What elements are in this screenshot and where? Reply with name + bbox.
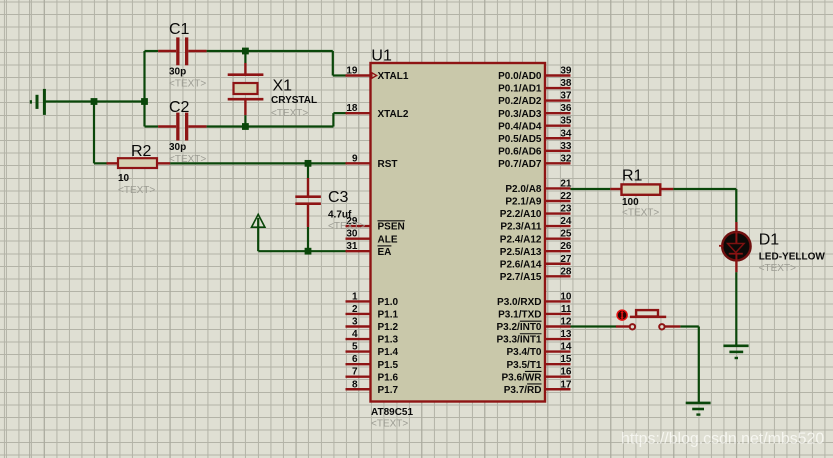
svg-text:17: 17 [560, 379, 572, 390]
svg-text:C1: C1 [169, 21, 190, 38]
U1 pin 14 P3.4/T0 [506, 342, 571, 359]
U1 pin 36 P0.3/AD3 [498, 103, 572, 120]
svg-text:R1: R1 [622, 168, 643, 185]
U1 pin 27 P2.6/A14 [500, 254, 572, 271]
svg-text:<TEXT>: <TEXT> [271, 108, 308, 119]
U1 pin 29 PSEN [346, 216, 405, 233]
U1 pin 35 P0.4/AD4 [498, 116, 572, 133]
svg-text:P2.6/A14: P2.6/A14 [500, 259, 542, 270]
svg-text:R2: R2 [131, 143, 152, 160]
svg-text:C2: C2 [169, 99, 190, 116]
U1 pin 18 XTAL2 [346, 103, 409, 120]
U1 pin 15 P3.5/T1 [506, 354, 571, 371]
svg-text:<TEXT>: <TEXT> [169, 79, 206, 90]
svg-text:4.7uf: 4.7uf [328, 210, 352, 221]
wire P2.0 to R1 [571, 188, 611, 190]
svg-text:P0.3/AD3: P0.3/AD3 [498, 109, 542, 120]
svg-text:P2.4/A12: P2.4/A12 [500, 234, 542, 245]
U1 pin 11 P3.1/TXD [498, 304, 572, 321]
U1 pin 3 P1.2 [346, 317, 399, 334]
svg-text:P0.7/AD7: P0.7/AD7 [498, 159, 542, 170]
svg-text:PSEN: PSEN [378, 222, 405, 233]
U1 pin 4 P1.3 [346, 329, 399, 346]
svg-text:21: 21 [560, 178, 572, 189]
svg-text:XTAL2: XTAL2 [378, 109, 409, 120]
U1 pin 32 P0.7/AD7 [498, 153, 572, 170]
U1 pin 5 P1.4 [346, 342, 399, 359]
svg-text:<TEXT>: <TEXT> [622, 208, 659, 219]
wire P3.2 to button [571, 325, 617, 327]
wire C2 to XTAL2 [207, 113, 346, 126]
U1 pin 31 EA [346, 241, 392, 258]
svg-text:30p: 30p [169, 67, 186, 78]
svg-text:D1: D1 [759, 232, 780, 249]
U1 pin 34 P0.5/AD5 [498, 128, 572, 145]
wire R1 to D1 [673, 189, 736, 222]
svg-text:<TEXT>: <TEXT> [371, 419, 408, 430]
wire C1 to XTAL1 [207, 51, 346, 76]
svg-text:X1: X1 [273, 78, 293, 95]
wire R2 to RST [170, 162, 345, 164]
svg-text:9: 9 [352, 153, 358, 164]
svg-text:8: 8 [352, 379, 358, 390]
svg-text:<TEXT>: <TEXT> [759, 263, 796, 274]
U1 pin 23 P2.2/A10 [500, 204, 572, 221]
svg-text:P0.6/AD6: P0.6/AD6 [498, 146, 542, 157]
node crystal top junction [242, 48, 249, 55]
svg-text:19: 19 [346, 66, 358, 77]
node C3/EA junction [305, 248, 312, 255]
U1 pin 19 XTAL1 [346, 66, 409, 83]
svg-text:LED-YELLOW: LED-YELLOW [759, 252, 826, 263]
svg-text:11: 11 [561, 304, 572, 315]
wire C1 to C2 left vertical [143, 51, 145, 127]
svg-text:10: 10 [560, 291, 572, 302]
U1 pin 9 RST [346, 153, 398, 170]
svg-text:15: 15 [560, 354, 572, 365]
svg-text:P1.1: P1.1 [378, 310, 399, 321]
svg-text:P0.0/AD0: P0.0/AD0 [498, 71, 542, 82]
U1 pin 7 P1.6 [346, 367, 399, 384]
U1 pin 38 P0.1/AD1 [498, 78, 572, 95]
svg-text:P2.5/A13: P2.5/A13 [500, 247, 542, 258]
U1 pin 8 P1.7 [346, 379, 399, 396]
U1 pin 21 P2.0/A8 [505, 178, 572, 195]
node A junction [91, 98, 98, 105]
U1 pin 17 P3.7/RD [504, 379, 572, 396]
node B junction [141, 98, 148, 105]
pin 19 XTAL1 input arrow [372, 73, 377, 79]
svg-text:<TEXT>: <TEXT> [118, 185, 155, 196]
svg-text:CRYSTAL: CRYSTAL [271, 95, 317, 106]
svg-text:P1.3: P1.3 [378, 335, 399, 346]
svg-text:34: 34 [560, 128, 572, 139]
power arrow [252, 214, 265, 251]
U1 pin 28 P2.7/A15 [500, 266, 572, 283]
svg-text:P2.0/A8: P2.0/A8 [505, 184, 542, 195]
svg-text:24: 24 [560, 216, 572, 227]
crystal X1 [228, 51, 317, 127]
svg-text:ALE: ALE [378, 234, 398, 245]
capacitor C2 [145, 99, 207, 165]
svg-text:U1: U1 [371, 48, 392, 65]
U1 pin 1 P1.0 [346, 291, 399, 308]
U1 pin 24 P2.3/A11 [500, 216, 572, 233]
U1 pin 10 P3.0/RXD [497, 291, 572, 308]
chip U1 AT89C51 [371, 48, 546, 430]
svg-text:P3.0/RXD: P3.0/RXD [497, 297, 541, 308]
wire node A to node B [94, 100, 145, 102]
node RST/C3 junction [305, 160, 312, 167]
svg-text:32: 32 [560, 153, 572, 164]
ground left GND1 [31, 89, 45, 115]
U1 pin 6 P1.5 [346, 354, 399, 371]
push button [616, 310, 681, 329]
svg-text:100: 100 [622, 197, 639, 208]
svg-text:6: 6 [352, 354, 358, 365]
svg-text:P3.3/INT1: P3.3/INT1 [496, 335, 541, 346]
svg-text:P2.3/A11: P2.3/A11 [500, 222, 542, 233]
wire button to ground [680, 327, 698, 403]
svg-text:P3.5/T1: P3.5/T1 [506, 360, 541, 371]
svg-text:27: 27 [560, 254, 572, 265]
svg-text:P1.0: P1.0 [378, 297, 399, 308]
svg-text:26: 26 [560, 241, 572, 252]
node crystal bottom junction [242, 123, 249, 130]
svg-text:31: 31 [346, 241, 358, 252]
ground GND3 below button [686, 403, 711, 415]
svg-text:13: 13 [560, 329, 572, 340]
U1 pin 25 P2.4/A12 [500, 229, 572, 246]
svg-text:P0.2/AD2: P0.2/AD2 [498, 96, 542, 107]
U1 pin 26 P2.5/A13 [500, 241, 572, 258]
svg-text:P3.7/RD: P3.7/RD [504, 385, 542, 396]
svg-text:1: 1 [352, 291, 358, 302]
svg-text:33: 33 [560, 141, 572, 152]
svg-text:P1.5: P1.5 [378, 360, 399, 371]
wire node A down to R2 [94, 102, 107, 164]
capacitor C1 [145, 21, 207, 90]
watermark [621, 431, 824, 448]
svg-text:10: 10 [118, 173, 130, 184]
svg-text:P2.2/A10: P2.2/A10 [500, 209, 542, 220]
svg-text:AT89C51: AT89C51 [371, 407, 413, 418]
svg-text:P3.2/INT0: P3.2/INT0 [496, 322, 541, 333]
svg-text:23: 23 [560, 204, 572, 215]
U1 pin 16 P3.6/WR [501, 367, 571, 384]
svg-text:5: 5 [352, 342, 358, 353]
svg-text:P2.7/A15: P2.7/A15 [500, 272, 542, 283]
svg-text:14: 14 [560, 342, 572, 353]
U1 pin 37 P0.2/AD2 [498, 91, 572, 108]
svg-text:P1.6: P1.6 [378, 372, 399, 383]
svg-text:30p: 30p [169, 142, 186, 153]
svg-text:2: 2 [352, 304, 358, 315]
svg-text:<TEXT>: <TEXT> [328, 221, 365, 232]
wire arrow to EA [258, 250, 345, 252]
U1 pin 33 P0.6/AD6 [498, 141, 572, 158]
svg-text:P0.5/AD5: P0.5/AD5 [498, 134, 542, 145]
LED D1 [719, 222, 825, 274]
U1 pin 39 P0.0/AD0 [498, 66, 572, 83]
svg-text:16: 16 [560, 367, 572, 378]
svg-text:7: 7 [352, 367, 358, 378]
svg-text:38: 38 [560, 78, 572, 89]
svg-text:12: 12 [560, 317, 572, 328]
svg-text:XTAL1: XTAL1 [378, 71, 409, 82]
svg-text:https://blog.csdn.net/mbs520: https://blog.csdn.net/mbs520 [621, 431, 824, 448]
ground GND2 below D1 [723, 346, 748, 358]
svg-text:25: 25 [560, 229, 572, 240]
svg-text:P1.7: P1.7 [378, 385, 399, 396]
svg-text:35: 35 [560, 116, 572, 127]
resistor R1 [610, 168, 673, 219]
svg-text:P3.6/WR: P3.6/WR [501, 372, 542, 383]
U1 pin 30 ALE [346, 229, 398, 246]
capacitor C3 [295, 163, 365, 251]
svg-text:28: 28 [560, 266, 572, 277]
svg-text:39: 39 [560, 66, 572, 77]
U1 pin 12 P3.2/INT0 [496, 317, 571, 334]
svg-text:C3: C3 [328, 189, 349, 206]
svg-text:P2.1/A9: P2.1/A9 [505, 197, 542, 208]
svg-text:18: 18 [346, 103, 358, 114]
U1 pin 22 P2.1/A9 [505, 191, 572, 208]
svg-text:RST: RST [378, 159, 398, 170]
resistor R2 [107, 143, 171, 196]
svg-text:EA: EA [378, 247, 392, 258]
U1 pin 2 P1.1 [346, 304, 399, 321]
svg-text:P1.2: P1.2 [378, 322, 399, 333]
wire D1 to ground [735, 272, 737, 345]
U1 pin 13 P3.3/INT1 [496, 329, 571, 346]
svg-text:4: 4 [352, 329, 358, 340]
svg-text:36: 36 [560, 103, 572, 114]
svg-text:P1.4: P1.4 [378, 347, 399, 358]
svg-text:22: 22 [560, 191, 572, 202]
svg-text:P0.1/AD1: P0.1/AD1 [498, 84, 542, 95]
svg-text:P0.4/AD4: P0.4/AD4 [498, 121, 542, 132]
wire ground to node A [44, 100, 94, 102]
svg-text:37: 37 [560, 91, 572, 102]
svg-text:P3.1/TXD: P3.1/TXD [498, 310, 541, 321]
svg-text:3: 3 [352, 317, 358, 328]
svg-text:P3.4/T0: P3.4/T0 [506, 347, 541, 358]
